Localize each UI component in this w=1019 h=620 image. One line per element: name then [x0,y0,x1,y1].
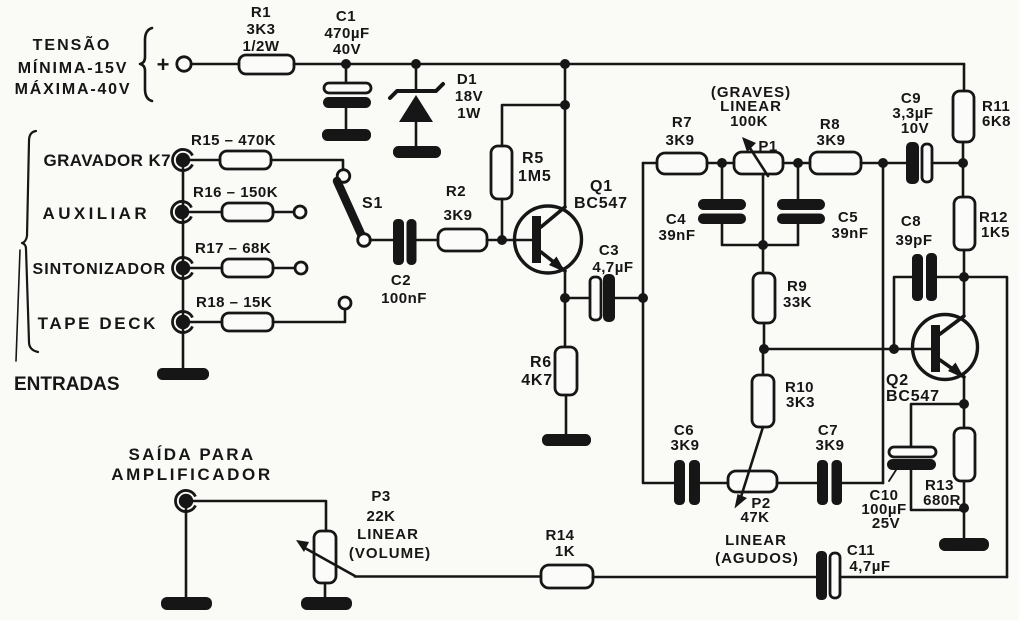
capacitor C3 [590,242,634,322]
resistor R14 [541,527,593,588]
svg-text:C4: C4 [666,211,686,228]
svg-text:39nF: 39nF [831,225,868,242]
svg-text:TAPE DECK: TAPE DECK [38,314,158,333]
svg-text:Q2: Q2 [886,372,909,389]
ground Q2 emitter [939,538,989,551]
svg-text:4,7µF: 4,7µF [592,259,633,276]
svg-text:(VOLUME): (VOLUME) [349,545,431,562]
svg-text:1K5: 1K5 [981,224,1010,241]
node Q1 collector tap [560,59,570,69]
capacitor C6 [670,422,728,505]
terminal V+ [177,57,191,71]
wire P1 wiper [762,174,765,245]
svg-text:C8: C8 [901,213,921,230]
wire bottom rail right [840,576,1007,579]
wire P3 to ground [324,583,327,597]
svg-text:3K3: 3K3 [786,394,815,411]
svg-text:3K3: 3K3 [246,21,275,38]
svg-text:33K: 33K [783,294,812,311]
svg-text:18V: 18V [455,88,483,105]
wire saida to P3 [193,501,326,531]
node Q2 emitter [959,399,969,409]
ground P3 [301,597,352,610]
svg-text:22K: 22K [366,508,395,525]
resistor R10 [752,349,815,427]
svg-text:3K9: 3K9 [670,437,699,454]
node D1 tap [411,59,421,69]
capacitor C10 [861,404,964,532]
svg-text:40V: 40V [333,41,361,58]
node C8 branch [889,344,899,354]
node R11 bottom [958,158,968,168]
svg-text:47K: 47K [740,509,769,526]
svg-text:1/2W: 1/2W [242,38,279,55]
node R9 bottom [759,344,769,354]
terminal tape deck [172,312,192,333]
capacitor C5 [763,163,869,245]
contact R17 [295,262,307,274]
wire saida ground stem [185,508,188,597]
svg-text:6K8: 6K8 [982,113,1011,130]
svg-text:SAÍDA PARA: SAÍDA PARA [129,445,256,464]
resistor R17 [190,240,295,277]
resistor R15 [190,132,276,169]
svg-text:C3: C3 [599,242,619,259]
svg-text:LINEAR: LINEAR [725,532,787,549]
svg-text:100K: 100K [730,113,768,130]
node P1 right [793,158,803,168]
node C1 tap [341,59,351,69]
wire input ground bus [182,160,185,368]
brace supply [140,28,152,101]
resistor R1 [239,4,294,74]
wire terminal to R1 [191,63,239,66]
svg-text:(AGUDOS): (AGUDOS) [715,550,799,567]
wire C2 to R2 [417,239,438,242]
wire emitter node to C3 [565,297,590,300]
svg-text:1W: 1W [457,105,481,122]
potentiometer P3 [296,488,431,583]
resistor R16 [189,184,294,221]
brace stray stroke [16,250,20,361]
svg-text:R17 – 68K: R17 – 68K [195,240,271,257]
svg-text:R18 – 15K: R18 – 15K [196,294,272,311]
node Q1 base [497,235,507,245]
node C9 left [878,158,888,168]
svg-text:D1: D1 [457,71,477,88]
node Q2 collector [959,272,969,282]
svg-text:3K9: 3K9 [815,437,844,454]
svg-text:BC547: BC547 [886,388,940,405]
ground R6 [542,434,591,446]
ground saida [161,597,212,610]
label TENSAO MINIMA/MAXIMA [15,34,132,98]
svg-text:C5: C5 [838,209,858,226]
resistor R18 [190,294,345,331]
svg-text:SINTONIZADOR: SINTONIZADOR [33,261,166,278]
svg-text:BC547: BC547 [574,195,628,212]
resistor R2 [438,183,487,251]
contact R16 [294,206,306,218]
svg-text:1M5: 1M5 [518,168,552,185]
svg-text:R2: R2 [446,183,466,200]
svg-text:4K7: 4K7 [521,372,553,389]
wire feedback top [964,277,1007,577]
svg-text:R16 – 150K: R16 – 150K [193,184,278,201]
svg-text:25V: 25V [872,515,900,532]
resistor R9 [753,245,812,349]
resistor R13 [923,404,975,509]
resistor R8 [810,116,906,174]
svg-text:470µF: 470µF [324,25,369,42]
terminal auxiliar [171,202,191,223]
node R13 bottom [959,503,969,513]
node Q1 emitter [560,293,570,303]
svg-text:Q1: Q1 [590,178,613,195]
wire bottom rail mid [593,576,816,579]
node tone input [638,293,648,303]
capacitor C9 [892,90,964,184]
svg-text:100nF: 100nF [381,290,427,307]
capacitor C11 [816,542,891,600]
svg-text:3K9: 3K9 [816,132,845,149]
svg-text:LINEAR: LINEAR [357,526,419,543]
svg-text:R15 – 470K: R15 – 470K [191,132,276,149]
transistor Q1 [515,178,628,273]
node wiper P1 [758,240,768,250]
resistor R7 [643,114,734,174]
wire feedback C7 to C9 [882,163,885,483]
svg-text:S1: S1 [362,195,383,212]
svg-text:P3: P3 [371,488,390,505]
svg-text:P1: P1 [758,138,777,155]
wire R2 to base node [487,239,532,242]
wire base line Q2 [764,348,931,351]
svg-text:R8: R8 [820,116,840,133]
transistor Q2 [886,277,978,405]
diode D1 zener [390,64,483,146]
svg-text:AUXILIAR: AUXILIAR [43,204,150,223]
inputs brace [22,131,38,352]
ground input bus [157,368,209,380]
switch S1 [337,170,383,247]
wire R13 to ground [963,481,966,538]
svg-text:39nF: 39nF [658,227,695,244]
svg-text:TENSÃO: TENSÃO [33,34,112,54]
label SAIDA PARA AMPLIFICADOR [111,445,273,484]
terminal sintonizador [172,258,192,279]
node R5 tap [560,100,570,110]
capacitor C2 [381,219,427,307]
wire top rail [294,63,964,66]
wire S1 to C2 [370,239,393,242]
svg-text:4,7µF: 4,7µF [849,558,890,575]
wire C3 to tone rail [615,297,643,300]
ground C1 [322,129,371,141]
svg-text:GRAVADOR K7: GRAVADOR K7 [43,151,171,170]
svg-text:MÍNIMA-15V: MÍNIMA-15V [18,58,128,77]
wire P1 to R8 [783,162,810,165]
svg-text:C11: C11 [847,542,875,559]
svg-text:39pF: 39pF [895,232,932,249]
potentiometer P2 [715,427,799,567]
svg-text:3K9: 3K9 [665,132,694,149]
wire tone left rail [643,163,674,483]
terminal gravador [172,149,192,170]
svg-text:MÁXIMA-40V: MÁXIMA-40V [15,79,132,98]
svg-text:R1: R1 [251,4,271,21]
capacitor C4 [658,163,763,245]
terminal saida [175,491,195,512]
wire Q1 emitter [564,271,567,298]
svg-text:ENTRADAS: ENTRADAS [14,374,120,395]
svg-text:R9: R9 [787,278,807,295]
wire collector rail [564,64,567,206]
svg-text:R6: R6 [530,354,552,371]
svg-text:R14: R14 [545,527,574,544]
svg-text:C1: C1 [336,8,356,25]
svg-text:C2: C2 [391,272,411,289]
svg-text:1K: 1K [555,543,575,560]
capacitor C1 [323,8,371,129]
capacitor C7 [815,422,883,505]
node C4 tap [717,158,727,168]
svg-text:R5: R5 [522,150,544,167]
svg-text:3K9: 3K9 [443,207,472,224]
ground D1 [393,146,441,158]
capacitor C8 [894,213,964,349]
potentiometer P1 [711,84,791,176]
svg-text:680R: 680R [923,492,961,509]
contact R18 [339,297,351,309]
resistor R12 [954,163,1010,277]
wire bottom rail left [355,575,541,578]
wire P2 to C7 [777,482,817,485]
svg-text:+: + [157,52,170,77]
svg-text:AMPLIFICADOR: AMPLIFICADOR [111,465,273,484]
resistor R6 [521,298,577,434]
resistor R5 [491,146,552,199]
svg-text:R7: R7 [672,114,692,131]
svg-text:10V: 10V [901,120,929,137]
wire R15 to S1 contact [271,160,343,170]
resistor R11 [953,64,1011,163]
wire R5 to base node [501,199,504,240]
wire R5 branch [502,105,565,146]
